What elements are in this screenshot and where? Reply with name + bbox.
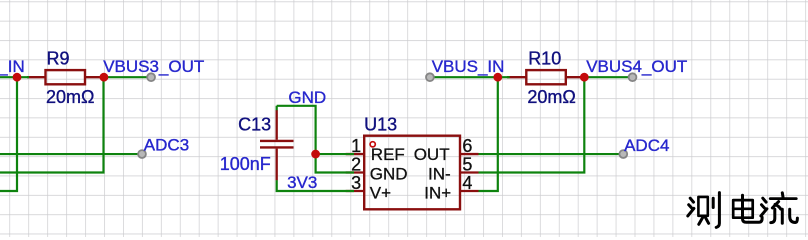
- svg-text:6: 6: [462, 136, 472, 156]
- svg-text:1: 1: [351, 136, 361, 156]
- svg-text:3: 3: [351, 173, 361, 193]
- svg-text:20mΩ: 20mΩ: [46, 87, 94, 107]
- svg-text:100nF: 100nF: [220, 154, 271, 174]
- svg-text:OUT: OUT: [414, 145, 450, 164]
- svg-text:IN+: IN+: [424, 184, 451, 203]
- svg-text:GND: GND: [288, 88, 326, 107]
- svg-text:5: 5: [462, 154, 472, 174]
- svg-text:REF: REF: [371, 145, 405, 164]
- svg-text:R9: R9: [47, 49, 70, 69]
- svg-text:C13: C13: [238, 114, 271, 134]
- svg-text:2: 2: [351, 154, 361, 174]
- svg-text:U13: U13: [364, 114, 397, 134]
- svg-text:VBUS3_OUT: VBUS3_OUT: [103, 57, 204, 76]
- svg-text:VBUS_IN: VBUS_IN: [432, 57, 505, 76]
- svg-text:VBUS4_OUT: VBUS4_OUT: [586, 57, 687, 76]
- svg-text:4: 4: [462, 173, 472, 193]
- svg-text:ADC3: ADC3: [144, 136, 189, 155]
- svg-text:VBUS_IN: VBUS_IN: [0, 57, 25, 76]
- svg-text:3V3: 3V3: [287, 173, 317, 192]
- svg-text:V+: V+: [370, 184, 391, 203]
- svg-text:ADC4: ADC4: [624, 136, 669, 155]
- svg-text:IN-: IN-: [428, 164, 451, 183]
- svg-text:20mΩ: 20mΩ: [527, 87, 575, 107]
- svg-text:GND: GND: [370, 164, 408, 183]
- svg-text:R10: R10: [528, 49, 561, 69]
